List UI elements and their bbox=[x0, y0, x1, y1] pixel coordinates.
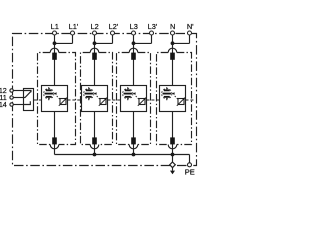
fuse element top L3 bbox=[131, 53, 136, 60]
terminal N bbox=[171, 31, 175, 35]
PE bus bbox=[55, 155, 190, 163]
enclosure dash-dot border bbox=[13, 34, 197, 166]
SPD module F2 (L2 path) bbox=[82, 86, 108, 112]
wire 12 bbox=[13, 90, 23, 92]
border hop arc top L2 bbox=[90, 48, 99, 52]
terminal PE bbox=[188, 163, 192, 167]
border hop arc bottom N bbox=[168, 145, 177, 149]
SPD module F4 (N path) bbox=[160, 86, 186, 112]
wire N column bbox=[172, 35, 174, 155]
fuse element bottom L3 bbox=[131, 137, 136, 144]
SPD module F3 (L3 path) bbox=[121, 86, 147, 112]
terminal L1 bbox=[53, 31, 57, 35]
wire L3 column bbox=[133, 35, 135, 155]
svg-text:L2: L2 bbox=[90, 22, 98, 31]
contact 12 bar bbox=[24, 91, 32, 93]
module L2 enclosure dash-dot bbox=[81, 53, 113, 145]
earthing arrow bbox=[170, 167, 175, 174]
svg-text:L2': L2' bbox=[109, 22, 119, 31]
terminal 12 bbox=[10, 89, 13, 92]
terminal L3 bbox=[132, 31, 136, 35]
fuse element top L1 bbox=[52, 53, 57, 60]
svg-text:N': N' bbox=[187, 22, 194, 31]
svg-text:14: 14 bbox=[0, 100, 7, 109]
border hop arc bottom L3 bbox=[129, 145, 138, 149]
svg-text:L3: L3 bbox=[130, 22, 138, 31]
contact 14 angle bbox=[24, 101, 31, 104]
fuse element top L2 bbox=[92, 53, 97, 60]
terminal earth (diamond) bbox=[170, 162, 176, 168]
terminal L1' bbox=[71, 31, 75, 35]
border hop arc top L1 bbox=[50, 48, 59, 52]
junction bus L2 bbox=[93, 153, 97, 157]
wire L1-L1' link bbox=[55, 35, 73, 43]
terminal L2 bbox=[93, 31, 97, 35]
junction N bbox=[171, 41, 175, 45]
junction bus N bbox=[171, 153, 175, 157]
svg-text:PE: PE bbox=[185, 168, 195, 177]
changeover blade bbox=[24, 91, 32, 97]
fuse element bottom N bbox=[170, 137, 175, 144]
wire L2 column bbox=[94, 35, 96, 155]
wire L2-L2' link bbox=[95, 35, 113, 43]
terminal L3' bbox=[150, 31, 154, 35]
wire L1 column bbox=[54, 35, 56, 155]
border hop arc bottom L1 bbox=[50, 145, 59, 149]
svg-text:L1': L1' bbox=[69, 22, 79, 31]
SPD module F1 (L1 path) bbox=[42, 86, 68, 112]
module L3 enclosure dash-dot bbox=[117, 53, 151, 145]
border hop arc bottom L2 bbox=[90, 145, 99, 149]
fuse element bottom L1 bbox=[52, 137, 57, 144]
wire N-N' link bbox=[173, 35, 190, 43]
wire 14 bbox=[13, 104, 23, 106]
wire L3-L3' link bbox=[134, 35, 152, 43]
terminal 14 bbox=[10, 103, 13, 106]
junction L3 bbox=[132, 41, 136, 45]
terminal N' bbox=[188, 31, 192, 35]
svg-text:L1: L1 bbox=[51, 22, 59, 31]
junction L1 bbox=[53, 41, 57, 45]
border hop arc top L3 bbox=[129, 48, 138, 52]
border hop arc top N bbox=[168, 48, 177, 52]
svg-text:L3': L3' bbox=[148, 22, 158, 31]
mechanical linkage dashes bbox=[34, 99, 195, 101]
junction bus L3 bbox=[132, 153, 136, 157]
terminal 11 bbox=[10, 96, 13, 99]
fuse element top N bbox=[170, 53, 175, 60]
terminal L2' bbox=[111, 31, 115, 35]
wire 11 bbox=[13, 97, 23, 99]
svg-text:N: N bbox=[170, 22, 175, 31]
remote signalling contact box bbox=[13, 89, 33, 111]
module L1 enclosure dash-dot bbox=[38, 53, 76, 145]
fuse element bottom L2 bbox=[92, 137, 97, 144]
junction L2 bbox=[93, 41, 97, 45]
module N enclosure dash-dot bbox=[157, 53, 192, 145]
